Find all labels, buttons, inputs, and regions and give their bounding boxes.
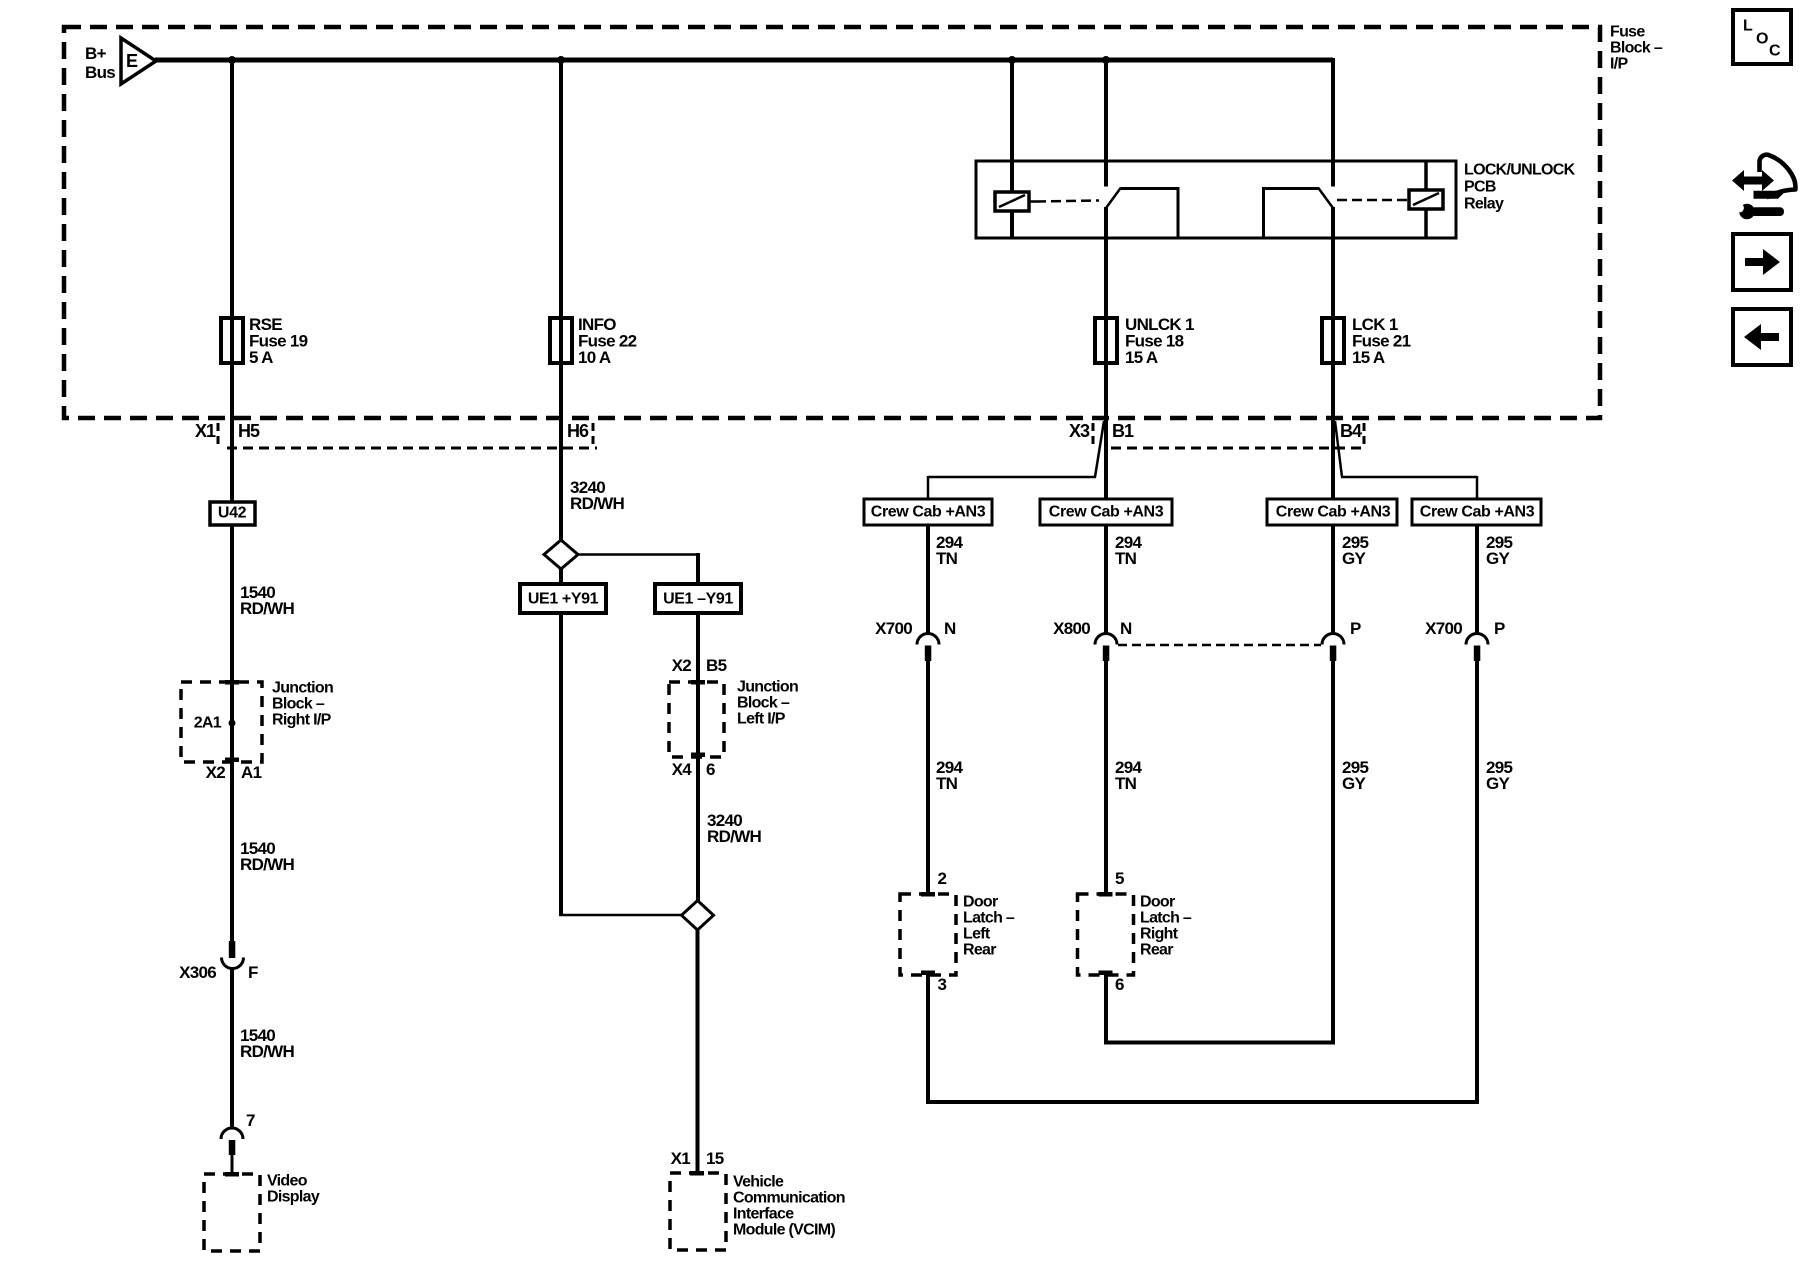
wire coil K1 link dashed to S1 xyxy=(1029,201,1099,202)
relay LOCK/UNLOCK PCB outline xyxy=(976,161,1456,238)
svg-text:X4: X4 xyxy=(672,760,693,779)
B+ bus triangle E xyxy=(121,38,156,84)
label X700 N left xyxy=(875,619,956,638)
svg-text:LOCK/UNLOCK: LOCK/UNLOCK xyxy=(1464,162,1576,179)
label Video Display xyxy=(267,1173,320,1206)
svg-text:3: 3 xyxy=(938,975,947,994)
label Vehicle Communication Interface Module (VCIM) xyxy=(733,1174,845,1239)
label 1540 RD/WH lower xyxy=(240,1026,295,1061)
svg-text:Block –: Block – xyxy=(272,696,325,713)
svg-text:TN: TN xyxy=(936,774,958,793)
connector UE1 -Y91 box xyxy=(655,584,741,613)
svg-text:X306: X306 xyxy=(179,963,216,982)
wire H5 to U42 xyxy=(230,420,234,502)
wire crew cab 4 to connector xyxy=(1475,525,1479,634)
wire splice to UE1 +Y91 xyxy=(559,568,563,584)
node bus junction at INFO drop xyxy=(557,56,565,64)
label Fuse Block - I/P xyxy=(1610,24,1663,73)
connector inline col 4 xyxy=(1466,634,1488,662)
connector Crew Cab +AN3 box 1 xyxy=(864,499,992,525)
label X4 6 xyxy=(672,760,715,779)
wire B4 to crew cab 3 xyxy=(1331,420,1335,499)
wire B1 branch diagonal to crew cab 1 xyxy=(928,421,1104,499)
label INFO Fuse 22 10A xyxy=(578,315,637,367)
connector X1 dashed body xyxy=(218,423,597,448)
label Door Latch - Right Rear xyxy=(1140,894,1192,959)
svg-text:UE1 –Y91: UE1 –Y91 xyxy=(663,591,733,608)
svg-text:RD/WH: RD/WH xyxy=(240,855,295,874)
svg-text:B4: B4 xyxy=(1340,421,1362,441)
svg-text:Communication: Communication xyxy=(733,1190,845,1207)
door latch right rear dashed box xyxy=(1078,892,1134,975)
icon LOC box xyxy=(1733,10,1791,64)
svg-text:X3: X3 xyxy=(1069,421,1090,441)
wire bottom link pin6 to col3 xyxy=(1104,1041,1335,1045)
splice diamond lower xyxy=(682,901,714,931)
svg-text:Door: Door xyxy=(1140,894,1175,911)
svg-text:GY: GY xyxy=(1342,774,1367,793)
connector inline col 3 xyxy=(1322,634,1344,662)
door latch left rear dashed box xyxy=(900,892,956,975)
junction block right I/P dashed box xyxy=(181,680,262,762)
label LCK 1 Fuse 21 15A xyxy=(1352,315,1411,367)
label 294 TN col1 lower xyxy=(936,758,964,793)
splice diamond upper xyxy=(544,540,578,569)
fuse INFO Fuse 22 10A xyxy=(550,318,572,363)
label RSE Fuse 19 5A xyxy=(249,315,308,367)
svg-text:GY: GY xyxy=(1486,774,1511,793)
wire connector col4 down xyxy=(1475,661,1479,1102)
svg-text:C: C xyxy=(1769,43,1781,60)
wire bus to relay switch S2 xyxy=(1331,58,1335,187)
svg-text:Crew Cab +AN3: Crew Cab +AN3 xyxy=(1276,504,1391,521)
svg-text:TN: TN xyxy=(1115,774,1137,793)
svg-text:B5: B5 xyxy=(706,656,727,675)
svg-text:Vehicle: Vehicle xyxy=(733,1174,784,1191)
svg-text:5 A: 5 A xyxy=(249,348,273,367)
svg-text:O: O xyxy=(1756,31,1768,48)
wire H6 to splice S1 xyxy=(559,420,563,542)
junction block left I/P dashed box xyxy=(669,680,724,757)
icon diagnostic hand with double arrow and wrench xyxy=(1732,155,1795,220)
svg-text:Rear: Rear xyxy=(1140,942,1173,959)
svg-text:RD/WH: RD/WH xyxy=(240,1042,295,1061)
svg-text:Module (VCIM): Module (VCIM) xyxy=(733,1222,835,1239)
svg-text:P: P xyxy=(1350,619,1361,638)
relay switch S2 LCK xyxy=(1264,188,1334,422)
label UNLCK 1 Fuse 18 15A xyxy=(1125,315,1194,367)
connector Crew Cab +AN3 box 3 xyxy=(1267,499,1397,525)
svg-text:2A1: 2A1 xyxy=(194,715,222,732)
wire door latch left pin3 down xyxy=(926,975,930,1102)
svg-text:F: F xyxy=(248,963,258,982)
wire door latch right pin6 down xyxy=(1104,975,1108,1043)
label X2 B5 xyxy=(672,656,727,675)
wire U42 to junction block right xyxy=(230,525,234,943)
label X700 P right xyxy=(1425,619,1505,638)
icon arrow left box xyxy=(1733,309,1791,365)
svg-text:Video: Video xyxy=(267,1173,308,1190)
svg-text:B1: B1 xyxy=(1112,421,1134,441)
svg-text:H5: H5 xyxy=(238,421,260,441)
connector inline col 2 xyxy=(1095,634,1117,662)
svg-text:15 A: 15 A xyxy=(1125,348,1158,367)
label 295 GY col3 upper xyxy=(1342,533,1369,568)
wire B4 branch diagonal to crew cab 4 xyxy=(1335,421,1477,499)
svg-text:UE1 +Y91: UE1 +Y91 xyxy=(528,591,599,608)
label X800 N xyxy=(1053,619,1132,638)
label 3240 RD/WH upper xyxy=(570,478,625,513)
wire crew cab 2 to connector xyxy=(1104,525,1108,634)
fuse LCK 1 Fuse 21 15A xyxy=(1322,318,1344,363)
svg-text:Crew Cab +AN3: Crew Cab +AN3 xyxy=(1420,504,1535,521)
relay coil K2 xyxy=(1409,161,1443,238)
wire bus to RSE fuse xyxy=(230,60,234,422)
svg-text:Block –: Block – xyxy=(737,695,790,712)
svg-text:PCB: PCB xyxy=(1464,179,1496,196)
wire bus to relay coil K1 xyxy=(1010,60,1014,193)
wire bus to relay switch S1 xyxy=(1104,60,1108,187)
svg-text:2: 2 xyxy=(938,869,947,888)
svg-text:X700: X700 xyxy=(875,619,912,638)
svg-text:TN: TN xyxy=(936,549,958,568)
svg-text:X800: X800 xyxy=(1053,619,1090,638)
wire connector col3 down xyxy=(1331,661,1335,1043)
connector X3 dashed body xyxy=(1093,423,1367,448)
video display dashed box xyxy=(204,1172,260,1251)
svg-text:X2: X2 xyxy=(206,763,226,782)
wire X306 to video display connector xyxy=(230,969,234,1129)
svg-text:RD/WH: RD/WH xyxy=(707,827,762,846)
label X2 A1 xyxy=(206,763,262,782)
relay coil K1 xyxy=(995,192,1029,238)
svg-text:Relay: Relay xyxy=(1464,196,1504,213)
label X1 15 xyxy=(671,1149,724,1168)
svg-text:Interface: Interface xyxy=(733,1206,794,1223)
svg-text:RD/WH: RD/WH xyxy=(570,494,625,513)
svg-text:Door: Door xyxy=(963,894,998,911)
label Junction Block - Left I/P xyxy=(737,679,798,728)
wire UE1 -Y91 to junction block left xyxy=(696,613,700,901)
svg-text:Rear: Rear xyxy=(963,942,996,959)
svg-text:GY: GY xyxy=(1486,549,1511,568)
svg-text:E: E xyxy=(126,51,138,71)
svg-text:Left: Left xyxy=(963,926,991,943)
wire connector to door latch left xyxy=(926,661,930,894)
svg-text:Junction: Junction xyxy=(272,680,333,697)
node bus junction at RSE drop xyxy=(228,56,236,64)
label 295 GY col4 lower xyxy=(1486,758,1513,793)
VCIM dashed box xyxy=(670,1171,726,1250)
svg-text:P: P xyxy=(1494,619,1505,638)
svg-text:Latch –: Latch – xyxy=(1140,910,1192,927)
svg-text:B+: B+ xyxy=(85,44,107,63)
svg-text:X1: X1 xyxy=(671,1149,691,1168)
icon arrow right box xyxy=(1733,234,1791,290)
svg-text:Crew Cab +AN3: Crew Cab +AN3 xyxy=(871,504,986,521)
connector U42 box xyxy=(210,502,255,525)
connector X306 F inline xyxy=(222,941,244,969)
relay switch S1 UNLCK xyxy=(1106,188,1178,422)
svg-text:Right I/P: Right I/P xyxy=(272,712,332,729)
svg-text:Junction: Junction xyxy=(737,679,798,696)
node bus junction at relay coil drop xyxy=(1008,56,1016,64)
svg-text:6: 6 xyxy=(706,760,715,779)
wire UE1 +Y91 down to splice S2 xyxy=(559,613,682,915)
wire bottom link pin3 to col4 xyxy=(926,1100,1479,1104)
label 3240 RD/WH lower xyxy=(707,811,762,846)
svg-text:Left I/P: Left I/P xyxy=(737,711,786,728)
connector inline col 1 xyxy=(917,634,939,662)
wire connector to door latch right xyxy=(1104,661,1108,894)
wire coil K2 link dashed to S2 xyxy=(1337,199,1407,202)
label 1540 RD/WH middle xyxy=(240,839,295,874)
svg-text:RD/WH: RD/WH xyxy=(240,599,295,618)
svg-text:GY: GY xyxy=(1342,549,1367,568)
wire splice S2 to VCIM xyxy=(696,929,700,1173)
svg-text:Display: Display xyxy=(267,1189,320,1206)
wire crew cab 1 to connector xyxy=(926,525,930,634)
svg-text:H6: H6 xyxy=(567,421,589,441)
node junction block pin 2A1 dot xyxy=(229,720,236,727)
connector UE1 +Y91 box xyxy=(520,584,606,613)
label Junction Block - Right I/P xyxy=(272,680,333,729)
svg-text:Right: Right xyxy=(1140,926,1179,943)
svg-text:X700: X700 xyxy=(1425,619,1462,638)
svg-text:U42: U42 xyxy=(218,505,247,522)
wire crew cab 3 to connector xyxy=(1331,525,1335,634)
svg-text:L: L xyxy=(1743,18,1753,35)
wire dashed connector link X800 to P xyxy=(1118,644,1321,647)
svg-text:N: N xyxy=(1120,619,1132,638)
svg-text:7: 7 xyxy=(246,1111,255,1130)
wire B1 to crew cab 2 xyxy=(1104,420,1108,499)
wire bus to INFO fuse xyxy=(559,60,563,422)
svg-text:Latch –: Latch – xyxy=(963,910,1015,927)
svg-text:15: 15 xyxy=(706,1149,724,1168)
svg-text:Block –: Block – xyxy=(1610,40,1663,57)
label 294 TN col2 lower xyxy=(1115,758,1143,793)
label 295 GY col4 upper xyxy=(1486,533,1513,568)
svg-text:X1: X1 xyxy=(195,421,216,441)
label 294 TN col1 upper xyxy=(936,533,964,568)
label Door Latch - Left Rear xyxy=(963,894,1015,959)
svg-text:Fuse: Fuse xyxy=(1610,24,1645,41)
node bus junction at UNLCK drop xyxy=(1102,56,1110,64)
svg-text:N: N xyxy=(944,619,956,638)
connector Crew Cab +AN3 box 4 xyxy=(1412,499,1541,525)
svg-text:A1: A1 xyxy=(241,763,262,782)
svg-text:Crew Cab +AN3: Crew Cab +AN3 xyxy=(1049,504,1164,521)
svg-text:I/P: I/P xyxy=(1610,56,1628,73)
label B+ Bus xyxy=(85,44,115,82)
label LOCK/UNLOCK PCB Relay xyxy=(1464,162,1576,213)
svg-text:5: 5 xyxy=(1115,869,1124,888)
fuse UNLCK 1 Fuse 18 15A xyxy=(1095,318,1117,363)
svg-text:X2: X2 xyxy=(672,656,692,675)
label 295 GY col3 lower xyxy=(1342,758,1369,793)
label 1540 RD/WH upper xyxy=(240,583,295,618)
fuse block I/P dashed outline xyxy=(64,27,1600,418)
wire splice branch to UE1 -Y91 xyxy=(577,553,698,584)
svg-text:TN: TN xyxy=(1115,549,1137,568)
connector pin 7 inline xyxy=(221,1128,243,1174)
fuse RSE Fuse 19 5A xyxy=(221,318,243,363)
svg-text:10 A: 10 A xyxy=(578,348,611,367)
svg-text:Bus: Bus xyxy=(85,63,115,82)
svg-text:15 A: 15 A xyxy=(1352,348,1385,367)
svg-text:6: 6 xyxy=(1115,975,1124,994)
wire B+ bus horizontal xyxy=(155,58,1333,63)
connector Crew Cab +AN3 box 2 xyxy=(1040,499,1172,525)
label 294 TN col2 upper xyxy=(1115,533,1143,568)
